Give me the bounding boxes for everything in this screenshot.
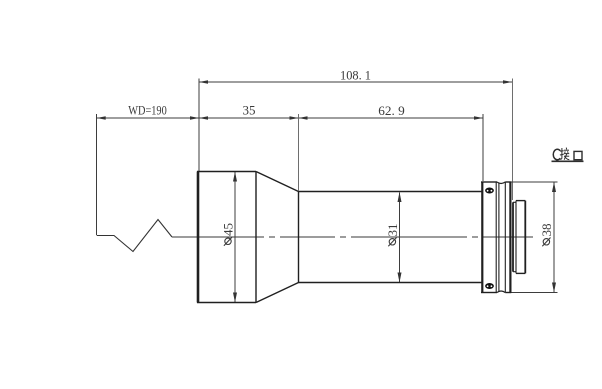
svg-text:38: 38 — [539, 224, 554, 237]
svg-text:62. 9: 62. 9 — [378, 103, 405, 118]
svg-text:31: 31 — [385, 224, 400, 237]
svg-text:WD=190: WD=190 — [128, 103, 167, 118]
svg-text:35: 35 — [243, 103, 256, 118]
svg-text:45: 45 — [221, 223, 236, 236]
svg-text:108. 1: 108. 1 — [340, 68, 371, 83]
